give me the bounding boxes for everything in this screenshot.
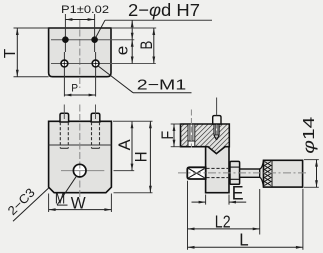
- svg-text:H: H: [133, 151, 151, 162]
- svg-text:B: B: [138, 41, 156, 50]
- svg-text:φ14: φ14: [301, 116, 318, 154]
- svg-text:M: M: [55, 190, 65, 207]
- svg-text:F: F: [158, 131, 177, 140]
- svg-text:P: P: [71, 83, 78, 95]
- svg-text:A: A: [115, 139, 134, 151]
- svg-text:2−M1: 2−M1: [137, 78, 186, 94]
- svg-text:2−φd H7: 2−φd H7: [128, 0, 200, 20]
- svg-text:T: T: [2, 48, 19, 58]
- svg-text:L2: L2: [215, 211, 231, 231]
- svg-text:E: E: [232, 183, 244, 204]
- svg-text:L: L: [239, 229, 249, 249]
- svg-text:P1±0.02: P1±0.02: [61, 4, 109, 16]
- svg-text:e: e: [113, 46, 132, 56]
